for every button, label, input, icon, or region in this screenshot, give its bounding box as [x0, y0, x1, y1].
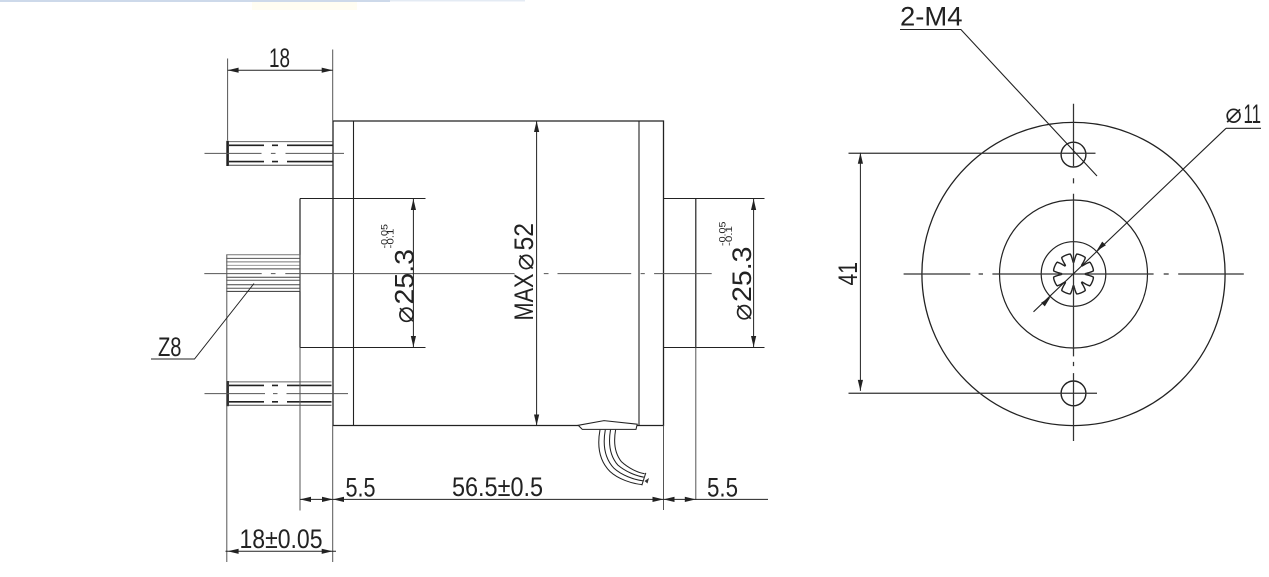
M4 hole top [1061, 142, 1086, 167]
svg-text:2-M4: 2-M4 [900, 2, 963, 32]
leader Φ11 [1034, 128, 1262, 311]
motor body outline [333, 121, 664, 426]
center line bottom stud axis [205, 393, 349, 395]
svg-text:5.5: 5.5 [346, 473, 376, 503]
extension lines [227, 50, 696, 563]
front pilot boss [299, 199, 301, 348]
rear end-bell seam [638, 121, 640, 426]
dim 41 extension lines [849, 152, 1096, 154]
front boss circle [1000, 200, 1148, 348]
dim Φ25.3 right [753, 199, 755, 347]
leader 2-M4 [900, 30, 1097, 177]
svg-text:18±0.05: 18±0.05 [240, 524, 323, 554]
dim 18±0.05 [226, 550, 337, 552]
dim 18 top [228, 69, 333, 71]
lead wire [599, 430, 649, 486]
front end-bell seam [353, 121, 355, 426]
splined shaft end star [1054, 254, 1094, 294]
text Φ11 [1227, 109, 1240, 122]
dim chain bottom 5.5/56.5/5.5 [300, 498, 768, 500]
svg-text:-0.1: -0.1 [724, 226, 735, 246]
M4 hole bottom [1061, 381, 1086, 406]
grommet / wire exit bush [578, 421, 637, 430]
svg-text:25.3: 25.3 [389, 249, 419, 305]
svg-text:Z8: Z8 [158, 332, 182, 362]
svg-text:5.5: 5.5 [707, 473, 738, 503]
pinion gear Z8 [226, 255, 300, 292]
front vertical center line [849, 104, 1244, 441]
top mounting stud M4 [229, 142, 333, 166]
text Φ25.3 left rotated [389, 249, 419, 321]
rear pilot boss [695, 199, 697, 348]
leader Z8 [151, 284, 254, 360]
front horizontal center line [904, 273, 1244, 275]
text MAXΦ52 rotated [509, 223, 539, 321]
svg-text:56.5±0.5: 56.5±0.5 [452, 472, 543, 502]
dim Φ25.3 left [412, 199, 414, 347]
text Φ25.3 right rotated [727, 247, 757, 319]
svg-text:11: 11 [1244, 99, 1262, 129]
svg-text:25.3: 25.3 [727, 247, 757, 303]
front view outer circle [922, 122, 1225, 425]
svg-text:-0.1: -0.1 [386, 229, 397, 249]
svg-text:52: 52 [509, 223, 539, 251]
svg-text:41: 41 [833, 262, 863, 286]
dim MAXΦ52 [536, 121, 538, 426]
svg-text:18: 18 [269, 43, 290, 73]
dim 41 line [859, 153, 861, 391]
svg-text:MAX: MAX [509, 274, 539, 321]
center line main motor axis [204, 273, 711, 275]
shaft circle Φ11 [1041, 242, 1106, 307]
faint top artifact line [0, 0, 390, 2]
center line top stud axis [204, 153, 711, 393]
bottom mounting stud M4 [229, 382, 332, 405]
